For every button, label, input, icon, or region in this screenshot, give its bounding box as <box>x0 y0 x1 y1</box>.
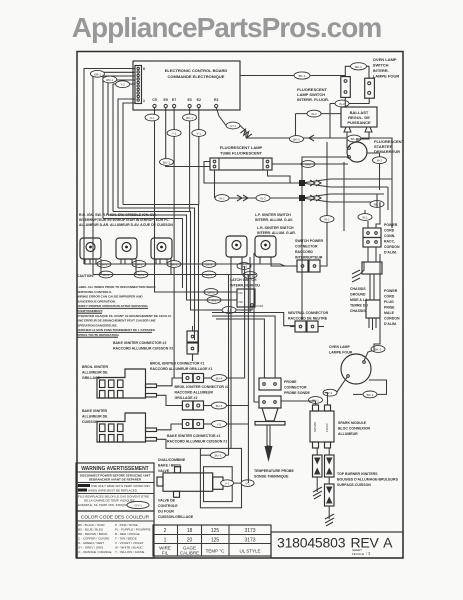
svg-text:OPERATION DANGEREUSE.: OPERATION DANGEREUSE. <box>77 323 118 327</box>
svg-text:G - GREEN / VERT: G - GREEN / VERT <box>78 541 104 545</box>
svg-text:DUAL/COMBINE: DUAL/COMBINE <box>158 458 186 462</box>
wire label RD-1 <box>103 76 117 83</box>
wire label OR-1 <box>90 70 104 77</box>
svg-text:VERIFY PROPER OPERATION AFT: VERIFY PROPER OPERATION AFTER SERVICING. <box>77 304 149 308</box>
svg-text:BAKE IGNITER CONNECTOR #1: BAKE IGNITER CONNECTOR #1 <box>167 434 220 438</box>
switch drop wires <box>330 97 369 107</box>
svg-text:CORD: CORD <box>384 229 395 233</box>
svg-text:NO: NO <box>239 300 244 304</box>
igniter switch S4 R.R. <box>80 238 101 264</box>
svg-text:CAUTION:: CAUTION: <box>77 274 94 278</box>
svg-text:O - ORANGE / ORANGE: O - ORANGE / ORANGE <box>78 550 112 554</box>
svg-text:W-2: W-2 <box>219 197 225 201</box>
svg-text:BR - BROWN / BRUN: BR - BROWN / BRUN <box>78 532 107 536</box>
svg-text:DEBRANCHER AVANT DE REPARER: DEBRANCHER AVANT DE REPARER <box>89 478 142 482</box>
electronic control board U1 <box>133 61 240 110</box>
top burner igniters text <box>337 472 399 487</box>
ground igniter E1 <box>313 487 322 499</box>
svg-text:INTERR. FLUOR.: INTERR. FLUOR. <box>297 97 329 102</box>
svg-text:VALVE DE: VALVE DE <box>158 499 176 503</box>
svg-text:INTERR. ALLUM. G.AV.: INTERR. ALLUM. G.AV. <box>255 218 293 222</box>
wire starter to bus <box>302 157 348 183</box>
svg-text:BAKE IGNITER: BAKE IGNITER <box>82 409 108 413</box>
svg-text:FLUORESCENT LAMP: FLUORESCENT LAMP <box>220 145 263 150</box>
ECB terminals C5 E9 E7 E3 E2 E3 <box>152 98 218 108</box>
wire label BK-1 top <box>294 72 310 79</box>
svg-text:V-1: V-1 <box>225 482 230 486</box>
valve wire loops <box>200 448 252 507</box>
top burner igniter E1 <box>313 448 323 492</box>
svg-text:BU-4: BU-4 <box>216 404 223 408</box>
svg-text:Y-2: Y-2 <box>120 83 125 87</box>
ballast T1 <box>341 107 377 132</box>
svg-text:CONNECTOR: CONNECTOR <box>284 386 307 390</box>
svg-text:BU - BLUE / BLEU: BU - BLUE / BLEU <box>78 528 103 532</box>
svg-text:VERIFIER LE BON FONCTIONNEM: VERIFIER LE BON FONCTIONNEMENT DE L'APPA… <box>77 328 156 332</box>
wire label Y-1 <box>167 130 181 137</box>
wires bundle turning right to center trunk <box>103 205 207 353</box>
svg-text:BK-1: BK-1 <box>299 74 306 78</box>
svg-text:SPARK MODULE: SPARK MODULE <box>338 421 367 425</box>
fluorescent lamp FL1 <box>210 145 272 170</box>
svg-text:E9: E9 <box>164 98 168 102</box>
svg-text:PRISE: PRISE <box>384 306 395 310</box>
oven lamp DS1 <box>329 345 374 393</box>
chassis ground <box>350 262 368 313</box>
wire label W-2 ballast left <box>307 110 321 117</box>
spark module A1 <box>310 405 371 448</box>
svg-text:INTERRUPTEUR: INTERRUPTEUR <box>295 256 323 260</box>
wire label Y-2 <box>116 81 130 88</box>
svg-text:1: 1 <box>143 99 145 103</box>
neutral connector <box>288 311 329 332</box>
svg-text:COMMANDE ELECTRONIQUE: COMMANDE ELECTRONIQUE <box>168 74 225 79</box>
svg-text:D'ALIM.: D'ALIM. <box>384 251 397 255</box>
svg-text:R - RED / ROUGE: R - RED / ROUGE <box>115 532 140 536</box>
wire label BU-1 valve top <box>211 452 226 459</box>
svg-text:L.F. IGNITER SWITCH: L.F. IGNITER SWITCH <box>255 213 291 217</box>
wire labels above spark module <box>309 397 323 404</box>
svg-text:BROIL IGNITER: BROIL IGNITER <box>82 365 108 369</box>
svg-text:P - PINK / ROSE: P - PINK / ROSE <box>115 523 138 527</box>
svg-text:NEUTRAL CONNECTOR: NEUTRAL CONNECTOR <box>288 311 329 315</box>
svg-text:TOP BURNER IGNITERS: TOP BURNER IGNITERS <box>337 472 378 476</box>
power cord plug <box>366 274 400 330</box>
broil igniter HR1 <box>97 369 157 398</box>
svg-text:GY-1: GY-1 <box>230 124 237 128</box>
wire label V-1 <box>192 130 206 137</box>
svg-text:DE LA GAMME DE TEMP. INDIQUEE: DE LA GAMME DE TEMP. INDIQUEE <box>84 499 135 503</box>
wire gauge table <box>153 525 271 556</box>
svg-text:BK-1: BK-1 <box>293 138 300 142</box>
bake igniter HR2 <box>97 413 157 442</box>
bake igniter text <box>82 409 108 424</box>
svg-text:OVEN LAMP: OVEN LAMP <box>329 345 350 349</box>
bus wires to right side <box>204 66 392 320</box>
svg-text:CHASSIS: CHASSIS <box>350 287 366 291</box>
svg-text:WIRING ERROR CAN CAUSE IMP: WIRING ERROR CAN CAUSE IMPROPER AND <box>77 295 143 299</box>
svg-text:E2: E2 <box>197 98 201 102</box>
svg-text:3173: 3173 <box>244 528 255 534</box>
broil igniter connector no2 pair <box>182 401 211 410</box>
svg-text:CORDON: CORDON <box>384 245 400 249</box>
fluorescent lamp switch S2 <box>297 77 350 102</box>
broil igniter text <box>82 365 108 380</box>
svg-text:V-1: V-1 <box>245 482 250 486</box>
svg-text:DU FOUR: DU FOUR <box>158 510 174 514</box>
bake igniter connector no1 label <box>167 434 227 444</box>
svg-text:G/Y-1: G/Y-1 <box>134 504 142 508</box>
svg-text:3173: 3173 <box>244 538 255 544</box>
wire label W-2 right of tube <box>301 161 315 168</box>
svg-text:EXEMPLE: FIL TEMP. MIN. INDIQU: EXEMPLE: FIL TEMP. MIN. INDIQUEE <box>78 503 130 507</box>
svg-text:20: 20 <box>187 538 193 544</box>
svg-text:N-1: N-1 <box>150 116 155 120</box>
svg-text:POWER: POWER <box>384 289 398 293</box>
svg-text:SWITCH POWER: SWITCH POWER <box>295 239 323 243</box>
svg-text:BK - BLACK / NOIR: BK - BLACK / NOIR <box>78 523 105 527</box>
power cord wires and labels <box>370 201 384 208</box>
svg-text:AVERTISSEMENT:: AVERTISSEMENT: <box>77 309 103 313</box>
warning box <box>76 463 154 511</box>
svg-text:BK-1: BK-1 <box>186 116 193 120</box>
svg-text:E7: E7 <box>172 98 176 102</box>
svg-text:BOUGIES D'ALLUMAGE-BRULEURS: BOUGIES D'ALLUMAGE-BRULEURS <box>337 478 399 482</box>
broil igniter connector no1 label <box>150 362 212 372</box>
wire label BR-1 oven lamp <box>363 391 377 398</box>
svg-text:E3: E3 <box>187 98 191 102</box>
svg-text:1: 1 <box>164 538 167 544</box>
svg-text:OR-1: OR-1 <box>94 72 101 76</box>
svg-text:COM: COM <box>256 304 264 308</box>
probe connector <box>259 378 311 408</box>
svg-text:MISE A LA: MISE A LA <box>350 298 368 302</box>
wire from tube right to starter <box>272 163 348 165</box>
svg-text:C - COPPER / CUIVRE: C - COPPER / CUIVRE <box>78 537 109 541</box>
svg-text:E3: E3 <box>214 98 218 102</box>
wire label V-1 valve <box>221 480 234 487</box>
wire label BK-3 oven lamp <box>371 346 385 353</box>
svg-text:RACC.: RACC. <box>384 240 395 244</box>
svg-text:BROIL IGNITER CONNECTOR #1: BROIL IGNITER CONNECTOR #1 <box>150 362 204 366</box>
wire label BU-4 <box>212 375 227 382</box>
svg-text:ALLUMEUR DE: ALLUMEUR DE <box>82 371 108 375</box>
svg-text:CALIBRE: CALIBRE <box>180 551 199 556</box>
svg-text:8: 8 <box>143 67 145 71</box>
bake igniter connector no1 <box>182 420 211 429</box>
ground igniter E3 <box>325 514 334 526</box>
latch wire labels <box>204 289 218 296</box>
svg-text:RACCORD ALLUMEUR CUISSON #1: RACCORD ALLUMEUR CUISSON #1 <box>167 440 227 444</box>
broil igniter connector no2 label <box>175 385 229 400</box>
wire label W-2 on bus 2 <box>256 195 270 202</box>
svg-text:RD-1: RD-1 <box>106 78 113 82</box>
svg-text:CORDON: CORDON <box>384 317 400 321</box>
svg-text:L.R. IGNITER SWITCH: L.R. IGNITER SWITCH <box>257 226 294 230</box>
wire label BK-1 bus2 <box>347 135 361 142</box>
svg-text:RACCORD DE NEUTRE: RACCORD DE NEUTRE <box>288 317 328 321</box>
wires from ECB terminals down <box>155 108 247 379</box>
svg-text:W-2: W-2 <box>311 112 317 116</box>
svg-text:C5: C5 <box>152 98 157 102</box>
dual combine valve label <box>158 458 186 473</box>
svg-text:W - WHITE / BLANC: W - WHITE / BLANC <box>115 546 144 550</box>
svg-text:ELECTRONIC CONTROL BOARD: ELECTRONIC CONTROL BOARD <box>165 68 228 73</box>
svg-text:BAKE IGNITER CONNECTOR #2: BAKE IGNITER CONNECTOR #2 <box>113 341 166 345</box>
svg-text:W-1: W-1 <box>324 218 330 222</box>
svg-text:PL - PURPLE / POURPRE: PL - PURPLE / POURPRE <box>115 528 151 532</box>
svg-text:ALLUMEUR: ALLUMEUR <box>338 432 358 436</box>
long center vertical wires <box>193 253 387 483</box>
svg-text:W-2: W-2 <box>260 197 266 201</box>
svg-text:INTERR. ALLUM. G.AR.: INTERR. ALLUM. G.AR. <box>257 231 296 235</box>
wire label BK-1 bus <box>290 136 304 143</box>
svg-text:CONNECTOR: CONNECTOR <box>295 245 318 249</box>
svg-text:CHASSIS: CHASSIS <box>350 309 366 313</box>
switch power connector <box>292 142 344 272</box>
svg-text:TEMP °C: TEMP °C <box>206 549 225 554</box>
L.F. igniter switch header <box>255 213 293 222</box>
svg-text:125: 125 <box>211 538 220 544</box>
svg-text:TUBE FLUORESCENT: TUBE FLUORESCENT <box>220 151 263 156</box>
svg-text:Y-3: Y-3 <box>217 423 222 427</box>
wire label N-1 <box>145 114 159 121</box>
svg-text:WARNING AVERTISSEMENT: WARNING AVERTISSEMENT <box>81 466 149 472</box>
temperature probe RT1 <box>254 408 294 479</box>
svg-text:: 1: : 1 <box>366 552 370 556</box>
svg-text:SONDE THERMIQUE: SONDE THERMIQUE <box>254 475 289 479</box>
lamp filament squiggle <box>240 128 252 139</box>
svg-text:V-1: V-1 <box>197 132 202 136</box>
wire label Y-3 <box>212 421 227 428</box>
strain relief <box>362 247 382 274</box>
oven lamp switch S3 <box>365 57 400 98</box>
svg-text:W-2: W-2 <box>339 102 345 106</box>
border frame <box>77 52 403 559</box>
igniter switch header text <box>79 213 173 227</box>
svg-text:SURFACE-CUISSON: SURFACE-CUISSON <box>337 483 371 487</box>
svg-text:RACCORD ALLUMEUR GRILLAGE #1: RACCORD ALLUMEUR GRILLAGE #1 <box>150 367 212 371</box>
bake igniter leads <box>157 424 201 448</box>
svg-text:INTERR. VERROU: INTERR. VERROU <box>230 284 260 288</box>
igniter switch S6 griddle <box>151 238 172 264</box>
valve label french <box>158 499 194 520</box>
svg-text:Y-1: Y-1 <box>172 132 177 136</box>
svg-text:UNE ERREUR DE BRANCHEMENT: UNE ERREUR DE BRANCHEMENT PEUT CAUSER UN… <box>77 319 156 323</box>
igniter switch S7 L.F. <box>226 236 247 262</box>
svg-text:LATCH SWITCH: LATCH SWITCH <box>230 278 257 282</box>
svg-text:18: 18 <box>187 528 193 534</box>
svg-text:V-1: V-1 <box>328 391 333 395</box>
fluorescent starter V1 <box>347 132 405 162</box>
svg-text:V - VIOLET / VIOLET: V - VIOLET / VIOLET <box>115 541 144 545</box>
svg-text:LAMPE FOUR: LAMPE FOUR <box>329 351 353 355</box>
connector J1 pin strip <box>135 66 145 104</box>
svg-text:OVEN LAMP: OVEN LAMP <box>373 57 397 62</box>
svg-text:BU-1: BU-1 <box>163 161 170 165</box>
svg-text:DANGEROUS OPERATION.: DANGEROUS OPERATION. <box>77 299 116 303</box>
switch row wire labels <box>97 261 111 268</box>
svg-text:Y - YELLOW / JAUNE: Y - YELLOW / JAUNE <box>115 550 144 554</box>
svg-text:BU-4: BU-4 <box>216 377 223 381</box>
svg-text:RACCORD ALLUMEUR CUISSON #2: RACCORD ALLUMEUR CUISSON #2 <box>113 347 173 351</box>
top burner igniter E2 <box>325 448 335 477</box>
igniter switch S5 R.F. <box>116 238 137 264</box>
svg-text:APRES TOUTE REPARATION.: APRES TOUTE REPARATION. <box>77 333 120 337</box>
top burner igniter E3 <box>325 477 335 519</box>
svg-text:PLUG: PLUG <box>384 300 394 304</box>
wire loops from control board to left bundle <box>84 69 135 275</box>
svg-text:2: 2 <box>164 528 167 534</box>
svg-text:COLOR CODE DES COULEUR: COLOR CODE DES COULEUR <box>81 515 150 521</box>
bake igniter connector no2 <box>187 326 198 360</box>
svg-text:CONTROLE: CONTROLE <box>158 504 178 508</box>
chevron arrows wire break <box>237 180 321 201</box>
svg-text:SWITCH: SWITCH <box>373 63 389 68</box>
power cord connector <box>363 223 400 255</box>
wire label V-1 oven lamp <box>323 389 337 396</box>
gas valve body <box>157 467 223 498</box>
wire label V-1 valve right <box>241 480 254 487</box>
svg-text:D'ALIM.: D'ALIM. <box>384 322 397 326</box>
svg-text:BC-1: BC-1 <box>367 393 374 397</box>
igniter switch S8 L.R. <box>255 236 276 262</box>
junction node A <box>299 180 305 186</box>
title block 318045803 REV A <box>271 532 403 558</box>
wire label BK-1 <box>183 114 197 121</box>
svg-text:LABEL ALL WIRES PRIOR TO: LABEL ALL WIRES PRIOR TO DISCONNECTION W… <box>77 285 155 289</box>
svg-text:BK-1: BK-1 <box>355 65 362 69</box>
wire label W-2 on bus <box>215 195 229 202</box>
svg-text:FOUR: FOUR <box>325 423 329 432</box>
wire label V-3 <box>212 402 227 409</box>
svg-text:BK-3: BK-3 <box>375 348 382 352</box>
wire label BK-1 between switches <box>351 63 367 70</box>
svg-text:FIL: FIL <box>162 551 169 556</box>
svg-text:W-1: W-1 <box>362 216 368 220</box>
L.R. igniter switch header <box>257 226 296 235</box>
svg-text:CUISSON: CUISSON <box>82 420 98 424</box>
wire label W-2 starter <box>373 157 387 164</box>
svg-text:GROUND: GROUND <box>350 293 366 297</box>
svg-text:ALLUMEUR D.AR. ALLUMEUR D.AV: ALLUMEUR D.AR. ALLUMEUR D.AV. ACUE DE CU… <box>79 223 173 227</box>
svg-text:POWER: POWER <box>384 223 398 227</box>
svg-text:USE ONLY WIRE WITH TEMP. RATED: USE ONLY WIRE WITH TEMP. RATED MIN. <box>91 484 151 488</box>
svg-text:BLOC CONNEXION: BLOC CONNEXION <box>338 427 371 431</box>
svg-text:W-2: W-2 <box>377 159 383 163</box>
wire label BU-1 <box>160 159 174 166</box>
bake igniter connector no2 label <box>113 341 173 351</box>
svg-text:318045803 REV A: 318045803 REV A <box>277 535 393 551</box>
broil igniter connector no1 <box>182 374 211 383</box>
color code box <box>76 511 154 558</box>
svg-text:ETIQUETER CHAQUE FIL AVANT: ETIQUETER CHAQUE FIL AVANT LE BRANCHEMEN… <box>77 314 172 318</box>
junction node B <box>299 195 305 201</box>
svg-text:PROBE SONDE: PROBE SONDE <box>284 391 311 395</box>
svg-text:GRILLAGE #2: GRILLAGE #2 <box>175 396 198 400</box>
svg-text:RACCORD ALLUMEUR: RACCORD ALLUMEUR <box>175 391 214 395</box>
svg-text:LAMPE FOUR: LAMPE FOUR <box>373 74 400 79</box>
svg-text:UL STYLE: UL STYLE <box>239 549 260 554</box>
svg-text:125: 125 <box>211 528 220 534</box>
svg-text:MALE: MALE <box>384 311 395 315</box>
svg-text:BU-1: BU-1 <box>215 454 222 458</box>
svg-text:TEMPERATURE PROBE: TEMPERATURE PROBE <box>254 469 294 473</box>
svg-text:GY - GREY / GRIS: GY - GREY / GRIS <box>78 546 103 550</box>
wire label GY-1 <box>226 122 240 129</box>
svg-text:CONN.: CONN. <box>384 234 395 238</box>
svg-text:WHEN WIRE MUST BE REPLACED.: WHEN WIRE MUST BE REPLACED. <box>88 489 138 493</box>
svg-text:INTERR.: INTERR. <box>373 68 389 73</box>
svg-text:CORD: CORD <box>384 295 395 299</box>
svg-text:T - TAN / BEIGE: T - TAN / BEIGE <box>115 537 137 541</box>
svg-text:CUISSON-GRILLAGE: CUISSON-GRILLAGE <box>158 515 194 519</box>
caution text block <box>77 274 172 337</box>
svg-text:BROIL IGNITER CONNECTOR #2: BROIL IGNITER CONNECTOR #2 <box>175 385 229 389</box>
svg-text:FEUILLE: FEUILLE <box>352 552 364 556</box>
svg-text:PUISSANCE: PUISSANCE <box>347 120 371 125</box>
latch switch S9 <box>230 278 264 308</box>
svg-text:RACCORD: RACCORD <box>295 250 313 254</box>
svg-text:PROBE: PROBE <box>284 380 297 384</box>
wire label W-2 below switch <box>335 100 349 107</box>
switch row bus wires <box>84 257 297 275</box>
svg-text:SPARK: SPARK <box>313 422 317 432</box>
svg-text:SERVICING CONTROLS.: SERVICING CONTROLS. <box>77 290 112 294</box>
svg-text:ALLUMEUR DE: ALLUMEUR DE <box>82 415 108 419</box>
broil igniter leads <box>157 378 183 406</box>
